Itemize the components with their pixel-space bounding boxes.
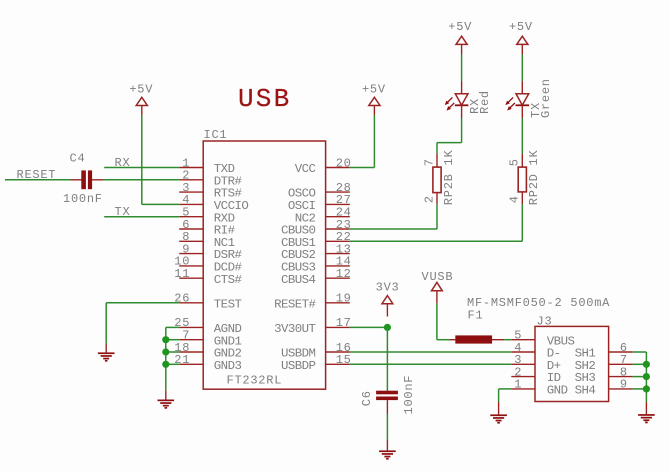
ground pin stub at shield bus (645, 402, 647, 414)
LED RX cathode pin (461, 105, 463, 118)
svg-text:VCC: VCC (295, 162, 316, 176)
svg-text:GND: GND (547, 384, 568, 398)
fuse F1 body (455, 335, 492, 343)
svg-text:CTS#: CTS# (214, 273, 243, 287)
wire VUSB corner to F1 (437, 339, 449, 341)
junction node SH2 (643, 361, 650, 368)
J3 pin 1 (GND) stub (511, 388, 535, 390)
svg-text:C4: C4 (70, 152, 86, 166)
wire jog vertical to LED (461, 118, 463, 143)
wire LED TX to +5V (521, 55, 523, 82)
wire IC1 pin 25 AGND to bus (166, 326, 179, 328)
wire C6 to ground (386, 414, 388, 440)
svg-text:+5V: +5V (129, 83, 153, 97)
fuse F1 right pin (492, 339, 504, 341)
junction node at GND2 (162, 348, 169, 355)
wire +5V down to VCCIO (141, 115, 143, 204)
J3 pin 6 (SH1) stub (609, 351, 633, 353)
svg-text:RP2B 1K: RP2B 1K (442, 149, 456, 205)
wire J3 SH2 (633, 363, 647, 365)
wire VCC vertical up (373, 115, 375, 168)
+5V pin stub P3 (461, 44, 463, 54)
wire RP2B top to LED jog (436, 143, 438, 154)
svg-text:17: 17 (336, 316, 352, 330)
supply VUSB symbol (432, 282, 443, 290)
wire IC1 pin 22 CBUS1 to RP2D (350, 240, 523, 242)
IC1 pin 13 (CBUS2) stub (326, 253, 350, 255)
resistor RP2B pin 7 stub (436, 154, 438, 168)
svg-text:USBDP: USBDP (281, 359, 316, 373)
IC1 pin 4 (VCCIO) stub (179, 203, 203, 205)
supply +5V symbol P4 (517, 36, 528, 44)
svg-text:+5V: +5V (448, 20, 472, 34)
svg-text:+5V: +5V (509, 20, 533, 34)
resistor RP2B body (433, 167, 441, 193)
wire IC1 pin 7 GND1 to bus (166, 339, 179, 341)
wire C4 to IC1 pin 2 (104, 179, 180, 181)
wire J3 SH4 (633, 388, 647, 390)
capacitor C6 bottom pin (386, 400, 388, 414)
LED RX arrows (445, 97, 454, 110)
wire LED RX to +5V (461, 55, 463, 82)
wire J3 SH3 (633, 376, 647, 378)
IC1 pin 2 (DTR#) stub (179, 179, 203, 181)
svg-text:5: 5 (508, 158, 522, 166)
svg-text:Green: Green (539, 78, 553, 118)
IC1 pin 11 (CTS#) stub (179, 277, 203, 279)
ground symbol GND2s (158, 400, 175, 409)
wire RESET to C4 (5, 179, 71, 181)
LED TX anode pin (521, 81, 523, 94)
wire jog horizontal (437, 142, 462, 144)
junction node SH4 (643, 385, 650, 392)
LED RX anode pin (461, 81, 463, 94)
supply 3V3 pin stub (386, 304, 388, 317)
fuse F1 left pin (449, 339, 455, 341)
supply 3V3 symbol (382, 296, 393, 304)
J3 pin 8 (SH3) stub (609, 376, 633, 378)
svg-text:F1: F1 (468, 308, 484, 322)
wire shield bus vertical (645, 352, 647, 402)
wire IC1 pin 23 CBUS0 to RP2B (350, 228, 437, 230)
wire TX to IC1 pin 5 (104, 216, 179, 218)
J3 pin 5 (VBUS) stub (511, 339, 535, 341)
IC1 pin 15 (USBDP) stub (326, 363, 350, 365)
wire F1 to J3 pin 5 (504, 339, 511, 341)
IC1 pin 19 (RESET#) stub (326, 302, 350, 304)
svg-text:4: 4 (508, 195, 522, 203)
junction node at GND3 (162, 361, 169, 368)
IC1 pin 17 (3V30UT) stub (326, 326, 350, 328)
IC1 pin 28 (OSCO) stub (326, 191, 350, 193)
resistor RP2B pin 2 stub (436, 193, 438, 205)
junction node 3V3 (384, 324, 391, 331)
svg-text:+5V: +5V (362, 83, 386, 97)
IC1 pin 24 (NC2) stub (326, 216, 350, 218)
svg-text:J3: J3 (537, 314, 553, 328)
IC1 pin 14 (CBUS3) stub (326, 265, 350, 267)
junction node SH3 (643, 373, 650, 380)
capacitor C4 left pin (71, 179, 82, 181)
wire RP2D to LED TX (521, 118, 523, 154)
wire USBDM to J3 D- (350, 351, 512, 353)
ground pin stub at J3 (498, 402, 500, 414)
+5V pin stub P4 (521, 44, 523, 54)
IC1 pin 16 (USBDM) stub (326, 351, 350, 353)
wire corner to IC1 pin 4 (142, 203, 179, 205)
J3 pin 2 (ID) stub (511, 376, 535, 378)
IC1 pin 26 (TEST) stub (179, 302, 203, 304)
svg-text:TEST: TEST (214, 297, 242, 311)
IC1 pin 12 (CBUS4) stub (326, 277, 350, 279)
IC IC1 FT232RL box (203, 141, 325, 389)
IC1 pin 21 (GND3) stub (179, 363, 203, 365)
J3 pin 7 (SH2) stub (609, 363, 633, 365)
IC1 pin 25 (AGND) stub (179, 326, 203, 328)
svg-text:SH4: SH4 (575, 384, 596, 398)
IC1 pin 8 (NC1) stub (179, 240, 203, 242)
wire J3 SH1 (633, 351, 647, 353)
junction node at GND1 (162, 336, 169, 343)
capacitor C4 right pin (92, 179, 104, 181)
svg-text:3V3: 3V3 (376, 280, 400, 294)
wire IC1 pin 18 GND2 to bus (166, 351, 179, 353)
wire VUSB down (436, 303, 438, 339)
svg-text:USB: USB (238, 84, 291, 114)
svg-text:100nF: 100nF (402, 375, 416, 415)
J3 pin 9 (SH4) stub (609, 388, 633, 390)
svg-text:1: 1 (514, 378, 522, 392)
supply +5V symbol P2 (369, 97, 380, 105)
IC1 pin 22 (CBUS1) stub (326, 240, 350, 242)
IC1 pin 6 (RI#) stub (179, 228, 203, 230)
svg-text:20: 20 (336, 156, 352, 170)
ground pin stub below GND bus (165, 391, 167, 400)
wire IC1 pin 20 VCC (350, 167, 375, 169)
resistor RP2D pin 5 stub (521, 154, 523, 168)
connector J3 body (535, 326, 609, 401)
svg-text:CBUS4: CBUS4 (281, 273, 316, 287)
ground pin stub below C6 (386, 440, 388, 451)
LED TX symbol (516, 94, 530, 107)
IC1 pin 10 (DCD#) stub (179, 265, 203, 267)
svg-text:RP2D 1K: RP2D 1K (527, 149, 541, 205)
IC1 pin 23 (CBUS0) stub (326, 228, 350, 230)
ground symbol GND5s (638, 414, 655, 423)
wire J3 GND pin 1 (499, 388, 512, 390)
wire IC1 pin 21 GND3 to bus (166, 363, 179, 365)
wire GND bus vertical (165, 327, 167, 390)
svg-text:2: 2 (422, 195, 436, 203)
wire J3 GND down (498, 389, 500, 402)
J3 pin 3 (D+) stub (511, 363, 535, 365)
IC1 pin 9 (DSR#) stub (179, 253, 203, 255)
ground pin stub at TEST (105, 344, 107, 353)
svg-text:7: 7 (422, 158, 436, 166)
IC1 pin 5 (RXD) stub (179, 216, 203, 218)
IC1 pin 18 (GND2) stub (179, 351, 203, 353)
LED TX arrows (506, 97, 515, 110)
svg-text:RESET#: RESET# (274, 297, 316, 311)
wire USBDP to J3 D+ (350, 363, 512, 365)
resistor RP2D pin 4 stub (521, 192, 523, 204)
capacitor C6 plates (376, 391, 398, 395)
wire 3V3 node down to C6 (386, 327, 388, 391)
capacitor C4 plates (81, 170, 86, 189)
ground symbol GND4s (490, 414, 507, 423)
svg-text:12: 12 (336, 267, 352, 281)
J3 pin 4 (D-) stub (511, 351, 535, 353)
svg-text:3V30UT: 3V30UT (274, 322, 315, 336)
supply +5V symbol P1 (136, 97, 147, 105)
IC1 pin 7 (GND1) stub (179, 339, 203, 341)
wire RX to IC1 pin 1 (104, 167, 179, 169)
ground symbol GND1s (98, 352, 115, 361)
wire IC1 pin 26 TEST to ground (106, 302, 179, 304)
svg-text:IC1: IC1 (204, 128, 228, 142)
IC1 pin 20 (VCC) stub (326, 167, 350, 169)
supply +5V symbol P3 (456, 36, 467, 44)
LED RX symbol (455, 94, 469, 107)
resistor RP2D body (518, 167, 526, 192)
svg-text:15: 15 (336, 353, 352, 367)
VUSB pin stub (436, 291, 438, 304)
svg-text:MF-MSMF050-2 500mA: MF-MSMF050-2 500mA (467, 296, 610, 310)
LED TX cathode pin (521, 105, 523, 118)
wire RP2B vertical (436, 204, 438, 229)
IC1 pin 27 (OSCI) stub (326, 203, 350, 205)
svg-text:C6: C6 (360, 390, 374, 406)
IC1 pin 3 (RTS#) stub (179, 191, 203, 193)
svg-text:9: 9 (620, 378, 628, 392)
wire TEST vertical down (105, 303, 107, 344)
wire RP2D vertical (521, 204, 523, 241)
svg-text:100nF: 100nF (63, 192, 103, 206)
wire IC1 pin 17 3V3OUT (350, 326, 388, 328)
svg-text:Red: Red (478, 90, 492, 114)
svg-text:GND3: GND3 (214, 359, 242, 373)
svg-text:FT232RL: FT232RL (227, 374, 283, 388)
svg-text:11: 11 (174, 267, 190, 281)
IC1 pin 1 (TXD) stub (179, 167, 203, 169)
svg-text:19: 19 (336, 292, 352, 306)
ground symbol GND3s (379, 450, 396, 459)
